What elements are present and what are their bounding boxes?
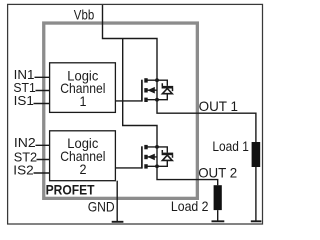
svg-text:Load 1: Load 1 bbox=[212, 138, 249, 154]
svg-text:Load 2: Load 2 bbox=[171, 198, 209, 214]
svg-text:IS1: IS1 bbox=[14, 93, 34, 108]
svg-text:IS2: IS2 bbox=[13, 163, 33, 178]
svg-text:1: 1 bbox=[80, 93, 87, 109]
svg-text:OUT 2: OUT 2 bbox=[198, 164, 237, 180]
svg-text:IN2: IN2 bbox=[14, 135, 36, 150]
svg-text:GND: GND bbox=[88, 199, 115, 215]
svg-text:OUT 1: OUT 1 bbox=[199, 98, 239, 114]
svg-text:PROFET: PROFET bbox=[46, 182, 95, 198]
svg-text:Vbb: Vbb bbox=[74, 6, 95, 22]
svg-text:2: 2 bbox=[80, 161, 87, 177]
